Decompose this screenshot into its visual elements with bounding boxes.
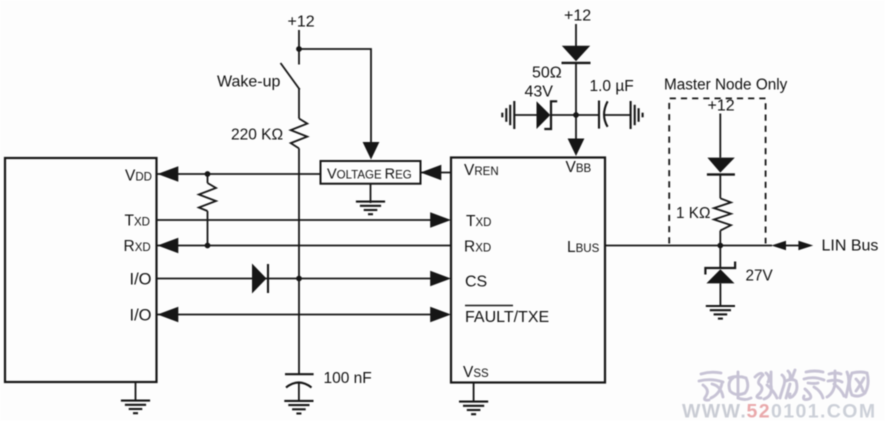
wire zener to junction [551,114,576,116]
arrow into FAULT/TXE pin U2 [430,307,451,322]
dashed box master node only [669,98,765,243]
wire D4 to resistor [719,176,721,199]
watermark url www.520101.com [682,401,877,421]
LIN bus arrow right [798,241,813,251]
arrow into TXD pin U2 [430,212,451,227]
wire left ground to zener D3 [514,114,536,116]
ground voltage reg [356,202,385,215]
wire junction to capacitor C2 [576,114,599,116]
wire VBB down arrow shaft [575,115,577,141]
wire LBUS to zener D5 [719,246,721,269]
svg-text:Master Node Only: Master Node Only [664,77,788,94]
junction dot VDD net [205,171,211,177]
switch S1 blade [281,63,300,90]
capacitor C1 100nF curved plate [286,383,312,388]
side ground right of 1.0uF [631,101,643,129]
wire R3 to LBUS [719,231,721,246]
junction dot RXD net [205,243,211,249]
zener D5 triangle [706,269,734,283]
diode D1 cathode bar [267,264,269,293]
wire zener D5 to ground [719,283,721,306]
overline FAULT [465,305,513,307]
ground VSS [459,402,488,415]
resistor R3 1K zigzag [714,198,731,230]
junction dot CS net [296,276,302,282]
diode D2 triangle [562,46,590,61]
ground zener 27V [706,306,735,319]
svg-text:220 KΩ: 220 KΩ [231,127,283,144]
svg-text:I/O: I/O [130,306,152,324]
wire CS line (I/O to CS) [157,278,433,280]
arrow into CS pin U2 [430,271,451,286]
switch S1 wake-up upper contact [298,49,300,65]
wire ground stem voltage reg [370,184,372,203]
resistor R1 220K zigzag [291,119,308,149]
wire master node +12 stub [719,114,721,158]
ground MCU [121,401,150,414]
capacitor C2 1.0uF curved plate [604,101,608,127]
svg-text:Wake-up: Wake-up [217,74,281,91]
svg-text:+12: +12 [708,98,735,115]
wire cap to ground [298,383,300,401]
svg-text:1 KΩ: 1 KΩ [676,205,710,222]
svg-text:VOLTAGEREG: VOLTAGEREG [327,167,412,183]
wire VREN to voltage reg [421,172,452,174]
wire +12 node to regulator branch [299,49,371,143]
arrow into RXD pin U1 [158,238,179,253]
LIN bus arrow left [771,241,786,251]
zener D3 cathode bar with ticks [544,101,557,129]
svg-text:43V: 43V [525,84,554,101]
side ground left of 43V zener [502,101,514,129]
wire switch to resistor [298,88,300,119]
diode D4 triangle [707,158,734,173]
wire D2 to VBB branch [575,64,577,115]
zener D5 cathode bar with ticks [705,262,735,275]
zener D3 triangle [537,101,551,129]
svg-text:I/O: I/O [130,270,152,288]
svg-text:52: 52 [747,401,772,421]
wire R2 to RXD line [207,211,209,246]
wire FAULT line (I/O to FAULT/TXE) [158,314,433,316]
wire +12 stub top middle [575,24,577,46]
junction dot LBUS net [717,243,723,249]
svg-text:FAULT/TXE: FAULT/TXE [465,309,549,326]
MCU box U1 [5,158,157,382]
junction dot VBB net [573,112,579,118]
svg-text:27V: 27V [746,268,774,285]
arrow into voltage reg right [421,165,442,180]
capacitor C2 1.0uF flat plate [598,101,600,129]
wire ground stem VSS [473,382,475,402]
svg-text:LIN Bus: LIN Bus [822,238,879,255]
arrow into I/O pin U1 [158,307,179,322]
svg-text:WWW.: WWW. [682,401,747,421]
wire +12 stub top left [298,30,300,49]
svg-text:CS: CS [465,274,487,291]
wire LIN bus arrow shaft [785,245,799,247]
wire LBUS line [605,245,772,247]
diode D1 triangle [252,264,267,294]
wire VDD line MCU to voltage reg [158,173,321,175]
ground 100nF [284,401,313,414]
svg-text:+12: +12 [564,8,591,25]
watermark chinese calligraphy [699,370,868,400]
arrow into voltage reg top [363,142,380,160]
wire TXD line [157,219,433,221]
arrow into VDD pin [158,166,179,181]
LIN transceiver box U2 [451,158,605,383]
svg-text:+12: +12 [288,14,315,31]
svg-text:50Ω: 50Ω [532,65,562,82]
voltage regulator box [321,161,421,184]
junction dot +12 wake-up node [296,46,302,52]
capacitor C1 100nF top plate [285,373,314,375]
svg-text:0101.COM: 0101.COM [771,401,877,421]
svg-text:100 nF: 100 nF [324,370,372,387]
diode D4 cathode bar [707,173,735,175]
wire RXD line [158,245,452,247]
resistor R2 pull-up stub [207,174,209,183]
wire ground stem MCU [135,382,137,400]
wire C2 to right ground [604,114,630,116]
arrow into VBB pin [568,139,585,157]
resistor R2 pull-up zigzag [199,183,216,211]
wire rail: resistor down to 100nF cap [298,148,300,374]
svg-text:1.0 µF: 1.0 µF [590,78,634,95]
diode D2 cathode bar [562,62,591,64]
